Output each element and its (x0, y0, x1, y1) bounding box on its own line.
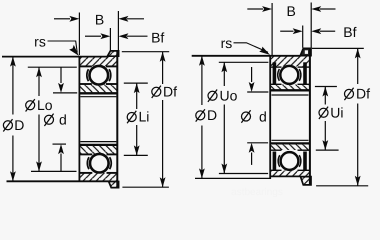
dimension Df line lower (357, 104, 359, 186)
Df extension line bottom (316, 185, 368, 187)
dimension B arrow left (54, 18, 70, 20)
seal bottom right (303, 152, 307, 171)
Li extension line bottom (124, 154, 148, 156)
outer ring top band hatch (271, 57, 309, 67)
outer ring top inner line (Lo) right part (106, 65, 118, 67)
dimension D line lower (12, 136, 14, 182)
label d (44, 114, 53, 126)
svg-text:rs: rs (221, 35, 233, 51)
ball top (90, 66, 109, 85)
Ui extension line bottom (316, 149, 339, 151)
svg-text:Bf: Bf (343, 24, 356, 40)
dimension Li line upper (136, 83, 138, 109)
Df extension line bottom (122, 186, 168, 188)
bore top line (79, 92, 118, 94)
seal bottom left (273, 152, 277, 171)
svg-text:D: D (207, 107, 217, 123)
raceway groove arcs bottom (278, 155, 280, 167)
dimension d lower arrow (251, 153, 253, 165)
outer ring bottom surface + OD bottom extension line (7, 180, 109, 182)
svg-text:Li: Li (139, 109, 150, 125)
svg-text:Bf: Bf (151, 29, 164, 45)
inner ring bottom outer line right part (107, 153, 118, 155)
dimension Bf arrow right (320, 30, 335, 32)
label D (3, 119, 12, 131)
outer ring bottom inner line right part (298, 169, 310, 171)
inner ring top outer line (Li) right part (106, 83, 118, 85)
svg-text:B: B (287, 3, 296, 19)
svg-text:Lo: Lo (37, 97, 53, 113)
dimension D line lower (201, 126, 203, 179)
outer ring bottom inner line (Lo) right part (107, 172, 118, 174)
raceway groove arcs bottom (87, 157, 89, 169)
dimension Lo line lower (38, 115, 40, 172)
d extension line top (247, 91, 268, 93)
inner ring bottom outer line left part (270, 149, 281, 151)
B left extension line (78, 13, 80, 56)
flange bottom (109, 182, 119, 188)
outer ring top surface + OD top extension line (2, 56, 108, 58)
right face line (116, 51, 118, 188)
svg-text:B: B (95, 11, 104, 27)
svg-text:rs: rs (34, 33, 46, 49)
dimension Bf arrow left (280, 30, 293, 32)
dimension Lo line upper (38, 67, 40, 96)
flange bottom (301, 177, 312, 185)
dimension d upper arrow (251, 67, 253, 82)
flange top (107, 51, 118, 56)
ball top (280, 66, 298, 84)
dimension Df line lower (162, 100, 164, 187)
svg-text:D: D (14, 117, 24, 133)
right face line (309, 48, 311, 185)
B/Bf right extension line (310, 3, 312, 48)
Uo extension line top (219, 61, 269, 63)
B left extension line (271, 3, 273, 55)
Bf left extension line (302, 26, 304, 48)
flange top notch (305, 50, 308, 54)
dimension Ui line upper (324, 87, 326, 105)
dimension Df line upper (162, 52, 164, 84)
outer ring bottom surface (270, 175, 301, 177)
inner ring top outer line left part (270, 83, 281, 85)
svg-text:astbearings: astbearings (231, 187, 283, 198)
Uo extension line bottom (219, 173, 268, 175)
ball bottom (281, 152, 299, 170)
outer ring bottom band hatch (80, 173, 117, 181)
outer ring top surface + OD top extension line (192, 55, 301, 57)
raceway groove arcs top (278, 69, 280, 81)
label Df (152, 86, 161, 98)
label d (241, 110, 250, 122)
B/Bf right extension line (117, 11, 119, 50)
d extension line bottom (53, 143, 67, 145)
inner ring bottom outer line left part (79, 153, 92, 155)
bore bottom chamfer line (272, 139, 309, 141)
outer ring top inner line (Lo) left part (79, 65, 92, 67)
bore bottom chamfer line (80, 141, 116, 143)
ball bottom (90, 154, 109, 173)
outer ring bottom inner line (Lo) left part (79, 172, 92, 174)
bore top chamfer line (80, 96, 116, 98)
dimension B arrow right (320, 8, 336, 10)
bore top chamfer line (272, 94, 309, 96)
Li extension line top (124, 82, 148, 84)
seal top left (273, 62, 277, 84)
dimension d lower arrow (60, 154, 62, 172)
inner ring bottom outer line right part (298, 149, 310, 151)
dimension D line upper (201, 56, 203, 105)
Df extension line top (122, 51, 169, 53)
svg-text:d: d (59, 112, 67, 128)
seal top right (303, 62, 307, 84)
outer ring bottom band hatch (271, 171, 309, 177)
left face line (78, 56, 80, 182)
inner ring top outer line (Li) left part (79, 83, 92, 85)
dimension D line upper (12, 57, 14, 115)
dimension B arrow right (127, 18, 144, 20)
label Uo (208, 90, 217, 102)
dimension Ui line lower (324, 121, 326, 150)
outer ring top inner line left part (270, 66, 281, 68)
inner ring top band hatch (271, 85, 309, 91)
dimension B arrow left (247, 8, 263, 10)
d extension line top (53, 92, 77, 94)
svg-text:Df: Df (163, 84, 177, 100)
svg-text:Ui: Ui (330, 105, 343, 121)
dimension Bf arrow right (127, 35, 148, 37)
OD bottom extension line (195, 177, 270, 179)
bore bottom line (270, 142, 309, 144)
rs leader (48, 41, 78, 53)
left face line (269, 55, 271, 179)
bore bottom line (79, 144, 118, 146)
label Ui (319, 107, 328, 119)
Lo extension line bottom (31, 170, 77, 172)
label Li (127, 111, 136, 123)
inner ring top outer line right part (298, 83, 310, 85)
dimension Li line lower (136, 125, 138, 155)
raceway groove arcs top (87, 69, 89, 81)
inner ring bottom band hatch (271, 144, 309, 150)
dimension Uo line upper (223, 62, 225, 86)
dimension Uo line lower (223, 105, 225, 174)
Lo extension line top (28, 66, 77, 68)
rs leader (234, 43, 269, 52)
dimension Df line upper (357, 48, 359, 84)
label D (196, 109, 205, 121)
dimension Bf arrow left (85, 35, 101, 37)
flange top (300, 48, 311, 55)
bore top line (270, 89, 309, 91)
svg-text:Df: Df (356, 86, 370, 102)
inner ring top band hatch (80, 85, 117, 93)
d extension line bottom (247, 142, 268, 144)
outer ring top band hatch (80, 57, 117, 67)
Bf left extension line (109, 28, 111, 50)
Df extension line top (312, 47, 364, 49)
label Df (344, 88, 353, 100)
outer ring top inner line right part (298, 66, 310, 68)
outer ring bottom inner line left part (270, 169, 281, 171)
Ui extension line top (315, 86, 337, 88)
label Lo (26, 99, 35, 111)
dimension d upper arrow (60, 67, 62, 83)
inner ring bottom band hatch (80, 146, 117, 155)
svg-text:Uo: Uo (220, 87, 238, 103)
svg-text:d: d (259, 108, 267, 124)
